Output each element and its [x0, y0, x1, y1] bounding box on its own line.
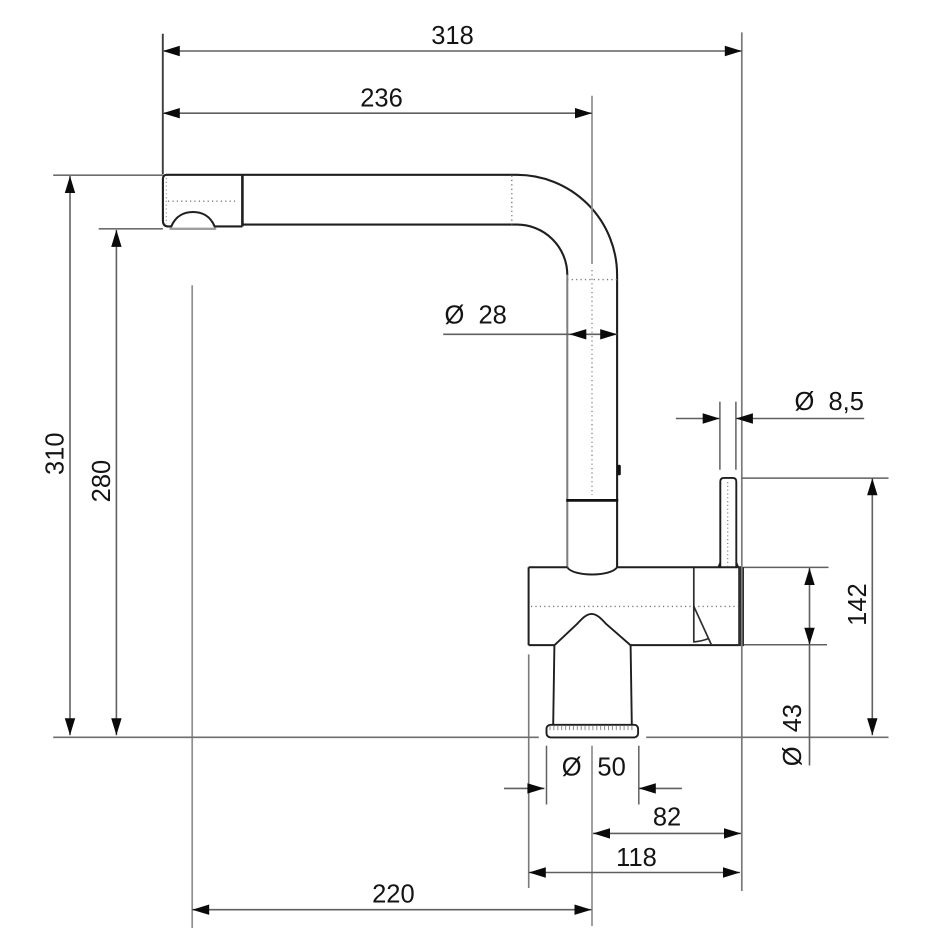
side cylinder dark end cap — [738, 567, 744, 646]
svg-text:236: 236 — [360, 84, 403, 112]
center extension line upper solid — [591, 96, 593, 264]
dim 220 right arrow — [575, 905, 592, 915]
pipe joint line — [566, 499, 618, 502]
dim dia8.5 left arrow — [703, 413, 720, 423]
dim 82 left arrow — [593, 828, 610, 838]
svg-text:220: 220 — [372, 880, 415, 908]
bend tangent dotted horizontal — [567, 279, 617, 281]
body top reference extension for dia43 — [744, 566, 829, 568]
dim dia43 top arrow — [804, 568, 814, 585]
dim 310 line — [69, 176, 71, 735]
dim dia8.5 right arrow — [736, 413, 753, 423]
dim 280 bottom arrow — [111, 718, 121, 735]
handle top reference line for 142 — [742, 477, 889, 479]
dim dia28 right arrow — [600, 329, 617, 339]
bend tangent dotted vertical — [511, 176, 513, 225]
dim dia50 text 50 — [597, 754, 625, 782]
body top line left of pipe — [529, 566, 568, 568]
pipe clip nub — [617, 465, 621, 476]
dim dia50 left arrow — [527, 783, 544, 793]
dim 118 right arrow — [723, 867, 740, 877]
dim 236 right arrow — [575, 108, 592, 118]
body top line right of pipe — [617, 566, 741, 568]
dim 220 left arrow — [192, 905, 209, 915]
dim dia8.5 left line — [676, 418, 720, 420]
svg-text:310: 310 — [42, 432, 70, 475]
flange knurl ticks — [550, 726, 636, 730]
dim 220 text — [372, 880, 415, 908]
dim 220 line — [192, 909, 591, 911]
aerator lip under head — [171, 228, 216, 230]
riser pipe left wall — [566, 275, 568, 567]
dim 118 left arrow — [529, 867, 546, 877]
svg-text:Ø 8,5: Ø 8,5 — [795, 388, 864, 416]
flange left extension for dia50 — [546, 746, 548, 805]
base bell silhouette — [555, 614, 631, 645]
dim 82 right arrow — [724, 828, 741, 838]
base flange — [547, 725, 639, 738]
flange right extension for dia50 — [638, 746, 640, 805]
svg-text:280: 280 — [88, 460, 116, 503]
dim 310 text — [42, 432, 70, 475]
side cylinder left edge — [693, 568, 695, 643]
spout tube bottom edge and inner bend — [242, 225, 567, 275]
base shaft left edge — [553, 645, 554, 724]
dim 142 line — [871, 478, 873, 735]
dim dia8.5 right line — [736, 418, 864, 420]
dim dia50 left line — [504, 787, 544, 789]
svg-text:318: 318 — [431, 22, 474, 50]
left extension line (spout end) — [162, 34, 164, 174]
dim dia28 line — [443, 333, 617, 335]
dim dia43 line — [809, 568, 811, 766]
handle rod base flare right — [736, 563, 738, 568]
svg-text:Ø: Ø — [562, 754, 582, 782]
dim 142 bottom arrow — [867, 718, 877, 735]
body bottom reference extension for dia43 — [744, 644, 827, 646]
dim 82 text — [653, 803, 681, 831]
dim 142 top arrow — [867, 478, 877, 495]
pipe dotted centerline — [591, 270, 593, 495]
dim 318 text — [431, 22, 474, 50]
dim 118 text — [616, 844, 657, 872]
dim 236 left arrow — [163, 108, 180, 118]
svg-text:82: 82 — [653, 803, 681, 831]
spout bottom reference line for 280 — [99, 228, 163, 230]
dim 310 bottom arrow — [65, 718, 75, 735]
dim 280 top arrow — [111, 230, 121, 247]
dim 280 line — [115, 230, 117, 735]
dim dia28 left arrow — [569, 329, 586, 339]
svg-text:118: 118 — [616, 844, 657, 872]
dim dia43 text — [779, 704, 807, 766]
right extension line (overall) — [741, 32, 743, 891]
svg-text:142: 142 — [844, 583, 872, 626]
dim 318 left arrow — [163, 46, 180, 56]
dim 236 line — [163, 112, 592, 114]
dim dia8.5 text — [795, 388, 864, 416]
svg-text:50: 50 — [597, 754, 625, 782]
body dotted centerline — [531, 605, 738, 607]
dim dia50 text Ø — [562, 754, 582, 782]
dim 118 line — [529, 872, 740, 874]
dim 318 right arrow — [725, 46, 742, 56]
spout tube top edge and outer bend — [242, 175, 617, 500]
side cylinder angle arc — [694, 639, 709, 642]
dim dia28 text — [445, 302, 507, 330]
dim 280 text — [88, 460, 116, 503]
dim 310 top arrow — [65, 176, 75, 193]
dim 142 text — [844, 583, 872, 626]
svg-text:Ø 43: Ø 43 — [779, 704, 807, 766]
spout head inner dotted line — [168, 200, 235, 202]
body bottom line right segment — [630, 644, 744, 646]
dim 82 line — [593, 832, 741, 834]
riser pipe right wall lower — [616, 500, 618, 567]
spout top reference line — [53, 174, 163, 176]
dim dia50 right line — [639, 787, 682, 789]
base shaft right edge — [631, 645, 632, 724]
handle rod dotted centerline — [727, 482, 729, 566]
dim 318 line — [163, 50, 742, 52]
floor reference line right part — [646, 736, 888, 738]
handle rod base flare left — [718, 563, 720, 568]
spout head joint line — [241, 175, 244, 227]
faucet spout head outline — [163, 175, 243, 227]
svg-text:Ø 28: Ø 28 — [445, 302, 507, 330]
dim 236 text — [360, 84, 403, 112]
rod left extension for dia8.5 — [719, 402, 721, 470]
rod right extension for dia8.5 — [735, 402, 737, 470]
side cylinder diagonal lever line — [694, 606, 712, 645]
body bottom line left segment — [529, 644, 555, 646]
center extension line lower — [591, 746, 593, 926]
spout head left knurl dotted — [165, 178, 167, 224]
dim dia43 bottom arrow — [804, 628, 814, 645]
body-left extension line for 118 — [528, 654, 530, 888]
dim dia50 right arrow — [639, 783, 656, 793]
floor reference line left part — [53, 736, 539, 738]
body top saddle under pipe — [567, 567, 617, 574]
left extension line for 220 — [191, 285, 193, 928]
handle rod outline — [720, 478, 736, 567]
body left edge — [528, 567, 530, 645]
